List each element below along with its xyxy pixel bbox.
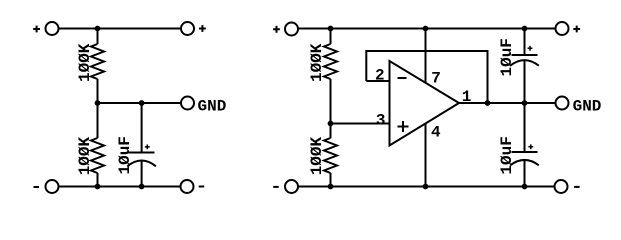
resistor R2 100K (left circuit lower) bbox=[91, 138, 104, 173]
node junction mid-cap bbox=[139, 100, 145, 106]
node junction top resistor branch bbox=[328, 26, 334, 32]
wire mid rail left circuit bbox=[98, 102, 182, 104]
svg-text:4: 4 bbox=[431, 123, 441, 141]
svg-text:1ØØK: 1ØØK bbox=[308, 43, 326, 82]
svg-text:GND: GND bbox=[198, 98, 227, 116]
resistor R1 100K (left circuit upper) bbox=[91, 44, 104, 79]
svg-text:1ØØK: 1ØØK bbox=[76, 136, 94, 175]
pin 4 wire bbox=[425, 123, 427, 187]
node junction top cap branch bbox=[522, 26, 528, 32]
terminal J6 + (right circuit top-left) bbox=[273, 23, 298, 36]
capacitor C3 10uF (right circuit lower) bbox=[510, 103, 539, 187]
svg-text:7: 7 bbox=[431, 69, 441, 87]
svg-text:1ØuF: 1ØuF bbox=[116, 136, 134, 174]
op-amp U1 bbox=[390, 61, 460, 146]
pin 2 wire bbox=[366, 80, 389, 82]
resistor R3 100K (right circuit upper) bbox=[324, 44, 337, 79]
node junction mid-left bbox=[95, 100, 101, 106]
wire top rail left circuit bbox=[59, 28, 182, 30]
op-amp inverting input minus sign bbox=[398, 77, 407, 79]
terminal J7 + (right circuit top-right) bbox=[556, 22, 581, 35]
wire bottom rail left circuit bbox=[59, 186, 181, 188]
svg-text:1ØuF: 1ØuF bbox=[498, 136, 516, 174]
terminal J9 - (right circuit bottom-left) bbox=[273, 180, 298, 193]
wire left branch right circuit bbox=[330, 29, 332, 187]
svg-text:1ØuF: 1ØuF bbox=[498, 38, 516, 76]
terminal J4 - (left circuit bottom-left) bbox=[34, 180, 59, 193]
wire bottom rail right circuit bbox=[298, 186, 555, 188]
node junction top pin7 branch bbox=[423, 26, 429, 32]
svg-text:1ØØK: 1ØØK bbox=[76, 43, 94, 82]
node junction feedback tap bbox=[485, 100, 491, 106]
svg-text:1: 1 bbox=[462, 88, 472, 106]
node junction bottom-left branch bbox=[95, 184, 101, 190]
node junction bottom-cap branch bbox=[139, 184, 145, 190]
resistor R4 100K (right circuit lower) bbox=[324, 138, 337, 173]
wire top rail right circuit bbox=[298, 28, 556, 30]
svg-text:GND: GND bbox=[573, 98, 602, 116]
svg-text:3: 3 bbox=[376, 112, 386, 130]
node junction top left circuit bbox=[95, 26, 101, 32]
op-amp non-inverting input plus sign bbox=[398, 121, 409, 132]
terminal J8 GND (right circuit) bbox=[556, 97, 602, 116]
capacitor C1 10uF (left circuit) bbox=[127, 103, 156, 187]
wire output rail bbox=[459, 102, 556, 104]
terminal J10 - (right circuit bottom-right) bbox=[555, 180, 580, 193]
wire resistor branch left circuit bbox=[97, 29, 99, 187]
pin 7 wire bbox=[425, 29, 427, 84]
wire feedback loop bbox=[366, 51, 487, 103]
terminal J1 + (left circuit top-left) bbox=[33, 22, 58, 35]
node junction bottom cap branch bbox=[522, 184, 528, 190]
node junction output cap branch bbox=[522, 100, 528, 106]
capacitor C2 10uF (right circuit upper) bbox=[510, 29, 539, 104]
node junction divider midpoint bbox=[328, 121, 334, 127]
terminal J5 - (left circuit bottom-right) bbox=[181, 180, 205, 193]
svg-text:2: 2 bbox=[375, 67, 385, 85]
node junction bottom pin4 branch bbox=[423, 184, 429, 190]
terminal J3 GND (left circuit) bbox=[181, 97, 226, 116]
node junction bottom resistor branch bbox=[328, 184, 334, 190]
svg-text:1ØØK: 1ØØK bbox=[308, 136, 326, 175]
wire to pin 3 bbox=[331, 123, 390, 125]
terminal J2 + (left circuit top-right) bbox=[181, 22, 206, 35]
